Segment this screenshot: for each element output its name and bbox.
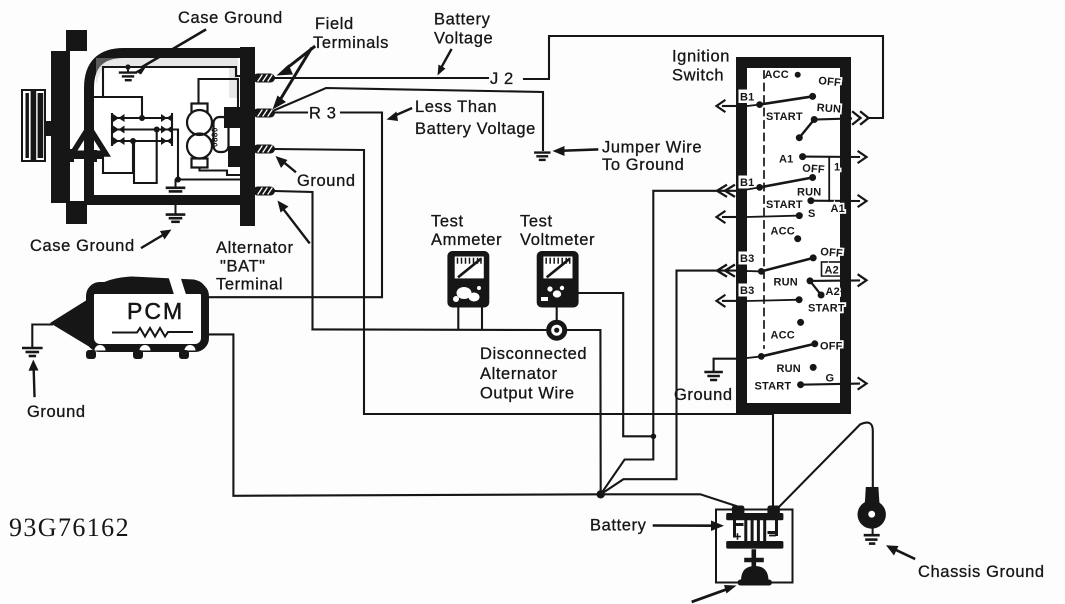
wire: T1 to J2 [275,77,488,79]
ground contact and arm [758,353,765,360]
svg-text:Less Than: Less Than [415,98,497,116]
wire: internal ground bus to T1 [103,67,247,76]
ignition switch frame [736,57,851,414]
alternator pulley [22,90,45,161]
PCM feet [95,345,106,350]
B1 lower contact and arm [756,184,763,191]
rotor windings [187,110,212,135]
wire: PCM output to junction [209,334,601,495]
left double chevron B3 [717,265,734,276]
left double chevron B1 lower [717,185,734,196]
arrow to vent dome [693,590,726,602]
svg-text:OFF: OFF [820,341,843,353]
ring connector (disconnected output wire) [549,322,565,338]
wire: R3 to PCM [209,113,382,298]
svg-text:OFF: OFF [818,75,842,89]
external case ground symbol (bottom) [167,205,184,222]
wire: switch to ground [714,359,736,371]
battery vent dome [741,566,769,581]
wire: ignition B1 feed to junction [601,191,736,495]
svg-text:Ground: Ground [27,403,86,421]
wire: loop to delta and diodes [89,97,142,126]
stator delta winding [64,127,106,162]
svg-text:A1: A1 [779,154,793,166]
svg-text:Battery: Battery [590,517,647,535]
switch ground symbol [706,372,722,380]
svg-text:Switch: Switch [672,67,724,85]
svg-text:Disconnected: Disconnected [480,345,587,363]
diode row wires [112,118,172,141]
svg-text:Ignition: Ignition [672,48,730,66]
svg-text:OFF: OFF [802,163,825,177]
alternator left flange tabs [66,30,87,51]
battery container [716,510,793,583]
svg-text:Voltmeter: Voltmeter [520,231,595,249]
wire: T4 BAT down [275,191,313,329]
PCM ground symbol [23,348,41,356]
svg-text:Test: Test [431,213,464,231]
terminal T1 (field) [253,74,275,83]
chassis grommet [865,487,880,504]
dashed travel line [763,71,765,348]
arrow to internal case ground [143,30,205,67]
chassis ground symbol [865,535,878,543]
wire: PCM nose to ground [32,325,52,348]
svg-text:A2: A2 [826,286,840,298]
svg-text:RUN: RUN [816,102,841,116]
svg-text:93G76162: 93G76162 [9,513,130,542]
svg-text:A1: A1 [831,203,845,215]
svg-text:RUN: RUN [797,187,821,199]
svg-text:Alternator: Alternator [480,365,558,383]
PCM nose [50,293,98,352]
rotor brushes [192,104,208,115]
arrow to PCM ground [33,370,36,396]
case interior shading [96,58,238,98]
arrow to T3 [284,163,295,172]
wire: chassis ground to battery negative [780,423,873,507]
svg-text:START: START [808,303,845,315]
wire: battery negative bus [364,414,773,506]
svg-text:0880: 0880 [211,127,220,147]
wire: T2 jumper to ground [275,88,543,150]
wire: ignition B3 feed to junction [601,271,736,495]
alternator right wall [240,47,255,226]
svg-text:B1: B1 [740,177,754,189]
wire: delta base loop to diode row 3 [103,141,133,173]
numbered box 1 [828,158,830,202]
wire: connector to junction node [567,330,601,494]
svg-text:B1: B1 [740,92,754,104]
B1 terminal label [739,90,756,104]
battery bottom strap [726,541,783,549]
svg-text:OFF: OFF [820,246,844,260]
left arrow row B3 lower [723,300,736,302]
svg-text:Ground: Ground [297,172,356,190]
terminal T4 (BAT) [253,187,275,196]
svg-text:Ground: Ground [674,386,733,404]
svg-text:A2: A2 [825,265,839,277]
diodes (six) [113,114,173,145]
test voltmeter body [537,251,579,308]
svg-text:ACC: ACC [771,330,795,342]
arrow to battery [654,524,712,527]
svg-text:Chassis Ground: Chassis Ground [918,563,1045,581]
B3 terminal label [739,252,756,265]
wire: J2 to ignition switch top feed [524,36,883,118]
svg-text:Terminal: Terminal [216,276,283,294]
internal bottom bus [178,178,240,180]
svg-text:START: START [755,381,792,393]
svg-text:B3: B3 [740,285,754,297]
wire: T3 ground to battery negative bus [275,149,364,414]
svg-text:Test: Test [520,213,553,231]
svg-text:Field: Field [315,15,354,33]
wire: field terminal T2 to top brush [199,79,249,113]
internal case ground symbol [120,64,136,80]
left arrow row B1 [723,105,736,107]
ammeter leads [458,308,482,330]
internal capacitor feed-through [167,180,184,191]
svg-text:Case Ground: Case Ground [30,237,135,255]
svg-text:PCM: PCM [127,298,184,324]
dome cross handle [747,552,762,569]
voltage regulator capsule [211,117,229,152]
svg-text:Ammeter: Ammeter [431,231,502,249]
B1 lower terminal label [739,176,756,189]
wire: row2 to bottom loop [134,130,157,184]
junction dots on diode rows [139,115,145,121]
alternator case body [89,53,249,200]
terminal T2 (field) [253,109,275,118]
arrow to T4 [284,210,309,243]
wire: row2 right extension down to output bus [172,130,178,180]
diode bridge buses [112,114,172,145]
battery cells [735,521,777,541]
voltmeter bottom lead [556,308,558,322]
jumper ground symbol [535,153,549,160]
svg-text:Output Wire: Output Wire [480,385,575,403]
junction node [597,490,605,498]
svg-text:R 3: R 3 [309,105,336,123]
battery posts [732,506,745,516]
svg-text:RUN: RUN [777,363,801,375]
battery top strap [726,513,783,520]
arrows to field terminals [287,47,314,68]
B3 contact and arm [758,268,765,275]
svg-text:Battery: Battery [434,11,491,29]
PCM top bump [94,277,207,295]
arrow to R3 wire [395,109,411,116]
alternator mounting bar [51,51,70,203]
wire: ground bus left drop [102,67,104,97]
arrow to bottom case ground [142,235,163,248]
PCM internal resistor [113,328,192,337]
svg-text:ACC: ACC [771,226,795,238]
section 3: START contact [796,296,803,303]
svg-text:Alternator: Alternator [216,239,294,257]
wire: T2 to R3 [275,111,307,113]
test ammeter body [447,251,489,308]
svg-text:START: START [766,199,803,211]
wire: output to ammeter and connector [313,328,548,331]
svg-text:To Ground: To Ground [602,156,684,174]
B1 contact and arm to OFF [756,101,763,108]
A2 boxed label [822,262,845,276]
svg-text:Voltage: Voltage [434,30,493,48]
alternator shaft nub [44,121,51,136]
wire: bottom brush to regulator base [200,168,241,176]
arrow to chassis ground [896,550,914,559]
left arrow row S [723,216,736,218]
svg-text:Case Ground: Case Ground [178,9,283,27]
wire: voltmeter to switch feed [579,293,654,436]
svg-text:B3: B3 [740,253,754,265]
svg-text:G: G [826,373,835,385]
svg-text:RUN: RUN [774,277,798,289]
arrow to J2 wire [441,50,451,68]
svg-text:Jumper Wire: Jumper Wire [602,139,702,157]
terminal T3 (ground) [253,145,275,154]
wire: junction to battery positive post [601,494,738,506]
svg-text:START: START [766,111,803,123]
svg-text:1: 1 [834,162,840,174]
svg-text:"BAT": "BAT" [220,258,266,276]
right double chevron exit [853,112,869,124]
PCM body [90,286,205,348]
B3 lower terminal label [739,284,756,297]
svg-text:ACC: ACC [765,69,789,81]
PCM glare notch [167,271,186,296]
internal shading patches [224,107,240,128]
svg-text:S: S [808,208,816,220]
svg-text:Battery Voltage: Battery Voltage [415,120,536,138]
svg-text:Terminals: Terminals [313,34,389,52]
arrow to jumper ground [563,150,597,151]
svg-text:J 2: J 2 [490,70,514,88]
